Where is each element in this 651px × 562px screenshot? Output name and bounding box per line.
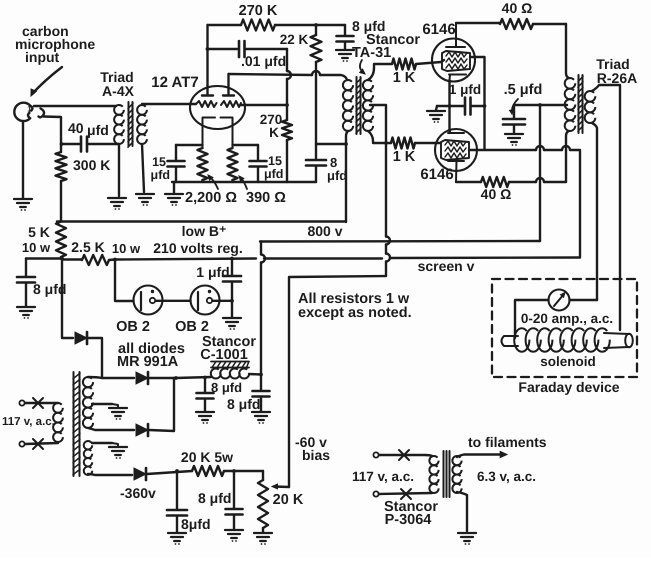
- capacitor 15 ufd left: [175, 145, 177, 160]
- svg-text:20 K 5w: 20 K 5w: [181, 449, 233, 465]
- svg-text:screen v: screen v: [418, 258, 475, 274]
- capacitor 15 ufd right: [257, 145, 259, 160]
- wire HV center tap: [92, 403, 112, 405]
- wire TA-31 center tap: [370, 105, 386, 143]
- wire to choke: [176, 377, 211, 378]
- wire bias bottom lead: [88, 474, 132, 475]
- transformer T4 HV secondary: [83, 377, 93, 387]
- svg-text:K: K: [269, 125, 279, 140]
- wire 20K5w out: [224, 470, 263, 472]
- V4 anode dot: [151, 290, 154, 293]
- ground A-4X secondary: [136, 194, 154, 202]
- V1 grid 1: [196, 101, 217, 107]
- svg-text:270 K: 270 K: [239, 3, 278, 19]
- V1 grid 2: [221, 101, 241, 107]
- V3 plate: [448, 161, 464, 182]
- wire D3 out: [149, 378, 174, 431]
- svg-text:15: 15: [152, 155, 166, 169]
- diode D3: [136, 424, 148, 436]
- wire 300K to low B+: [60, 181, 62, 221]
- svg-text:to filaments: to filaments: [468, 434, 547, 450]
- V1 cathode 1: [203, 118, 216, 149]
- svg-text:μfd: μfd: [327, 168, 347, 183]
- wire 800v riser: [539, 105, 541, 241]
- ground .5 ufd: [505, 134, 523, 142]
- fuse fil top: [399, 450, 409, 460]
- resistor 2.5K: [62, 258, 82, 260]
- V1 plate 2: [223, 74, 234, 96]
- svg-text:.01 μfd: .01 μfd: [241, 53, 286, 69]
- V3 screen lead: [469, 149, 477, 151]
- svg-text:μfd: μfd: [151, 168, 170, 182]
- svg-text:2.5 K: 2.5 K: [71, 239, 104, 255]
- wire 800v line: [260, 240, 540, 243]
- resistor 390 ohm: [228, 148, 238, 180]
- wire lowB feed diode: [62, 259, 73, 339]
- ground A-4X primary: [108, 198, 126, 206]
- tube V4 OB2 envelope: [134, 286, 163, 315]
- arrow 390: [240, 177, 247, 189]
- terminal fil top: [373, 452, 378, 457]
- wire TA-31 primary bottom to low B+: [346, 131, 348, 222]
- svg-text:6146: 6146: [422, 21, 455, 38]
- ground mic: [22, 121, 24, 198]
- V3 grid rows: [445, 141, 466, 146]
- V1 plate 1: [202, 86, 213, 96]
- ground bias1: [168, 533, 186, 541]
- svg-text:low B⁺: low B⁺: [182, 223, 227, 239]
- resistor 300K: [56, 152, 67, 181]
- ground 6146 cathode: [437, 105, 450, 107]
- svg-text:5 K: 5 K: [28, 224, 50, 240]
- tube V5 OB2 envelope: [191, 286, 220, 315]
- capacitor 8 ufd decoupling: [344, 25, 346, 35]
- choke L2 Stancor C-1001: [211, 362, 249, 368]
- wire D2 out: [149, 377, 176, 379]
- wire fil sec bottom: [457, 492, 467, 531]
- wire fil bottom: [379, 493, 432, 494]
- svg-text:10 w: 10 w: [22, 240, 51, 255]
- svg-text:input: input: [25, 49, 60, 65]
- ground 8 ufd reg: [17, 307, 35, 315]
- V2 grid rows: [446, 52, 467, 57]
- wire bias top lead: [92, 442, 112, 444]
- resistor 1K lower: [391, 138, 415, 149]
- wire 117v top: [25, 402, 58, 404]
- wire mic return: [44, 117, 62, 153]
- arrow to microphone: [32, 67, 62, 94]
- meter M 0-20 amp: [549, 290, 570, 311]
- pot arm: [274, 485, 289, 488]
- wire screens to screen-v: [477, 150, 580, 257]
- wire cathode link: [448, 80, 450, 106]
- terminal 117v top: [19, 400, 24, 405]
- wire 1K to grid V3: [415, 142, 440, 144]
- svg-text:300 K: 300 K: [73, 157, 110, 173]
- svg-text:15: 15: [268, 154, 282, 168]
- wire grid2: [241, 104, 287, 106]
- svg-text:8 μfd: 8 μfd: [227, 396, 260, 412]
- wire 1K to grid V2: [416, 62, 441, 64]
- wire low B+ line: [57, 220, 346, 222]
- wire D4 out: [147, 471, 192, 474]
- wire A-4X secondary to grid: [142, 103, 196, 105]
- tube V1 12AT7 envelope: [190, 86, 245, 129]
- capacitor 8 ufd filter2: [260, 375, 262, 391]
- svg-text:6.3 v, a.c.: 6.3 v, a.c.: [477, 469, 536, 484]
- svg-text:390 Ω: 390 Ω: [246, 190, 286, 206]
- wire 390 to 15ufd-right: [233, 144, 259, 146]
- wire 210v line left: [26, 257, 62, 259]
- fuse fil bottom: [401, 489, 411, 499]
- ground OB2: [223, 318, 241, 326]
- V3 cathode bar: [448, 129, 464, 133]
- V2 beam box: [442, 51, 470, 71]
- resistor 270K feedback: [208, 24, 242, 26]
- svg-text:P-3064: P-3064: [385, 512, 432, 528]
- tube V2 6146 upper envelope: [432, 39, 475, 82]
- capacitor 8 ufd bias1: [176, 471, 178, 509]
- tube V3 6146 lower envelope: [435, 129, 477, 171]
- transformer T2 secondary: [363, 80, 373, 90]
- diode D4: [134, 468, 146, 480]
- wire 15ufd-left to cathode: [176, 144, 203, 146]
- wire HV rect top: [102, 377, 134, 379]
- resistor 22K: [315, 25, 317, 35]
- ground cathode bus: [173, 182, 175, 193]
- arrow .5ufd: [512, 99, 518, 113]
- ground fil: [458, 533, 476, 541]
- transformer T5 core: [444, 451, 450, 497]
- transformer T2 core: [357, 77, 361, 134]
- wire 117v bottom: [25, 443, 58, 444]
- wire D1 to HV top: [88, 338, 102, 378]
- wire HV top lead: [88, 377, 102, 378]
- svg-text:1 K: 1 K: [393, 70, 416, 86]
- wire meter right: [570, 299, 598, 301]
- wire grid entry V2: [441, 60, 444, 62]
- svg-text:MR 991A: MR 991A: [117, 354, 179, 370]
- fuse 117v bottom: [33, 439, 43, 449]
- wire meter left: [515, 300, 549, 338]
- wire R-26A sec top: [592, 85, 620, 330]
- svg-text:1 μfd: 1 μfd: [196, 264, 229, 280]
- ground filter1: [196, 412, 214, 420]
- wire A-4X primary bottom to ground: [87, 143, 119, 145]
- capacitor .01 ufd: [208, 48, 238, 50]
- V4 cathode bar: [140, 292, 142, 310]
- wire A-4X secondary bottom to ground: [142, 144, 144, 192]
- svg-text:TA-31: TA-31: [352, 45, 391, 61]
- wire coupling vertical: [286, 49, 288, 120]
- transformer T5 secondary: [452, 456, 461, 465]
- wire HV bottom lead: [88, 428, 134, 430]
- svg-text:2,200 Ω: 2,200 Ω: [185, 190, 237, 206]
- svg-text:0-20 amp., a.c.: 0-20 amp., a.c.: [521, 311, 613, 326]
- wire bias feed vertical: [289, 143, 386, 487]
- transformer T4 core: [74, 372, 80, 476]
- svg-text:bias: bias: [302, 447, 330, 463]
- svg-text:40 Ω: 40 Ω: [502, 0, 533, 16]
- svg-text:117 v, a.c.: 117 v, a.c.: [2, 416, 55, 428]
- capacitor .5 ufd: [513, 105, 515, 118]
- wire to R-26A primary top: [566, 24, 569, 78]
- wire 270K to 8ufd: [316, 24, 345, 26]
- wire OB2 to ground stem: [213, 300, 233, 302]
- wire 390 bottom: [231, 180, 233, 182]
- transformer T1 Triad A-4X primary: [114, 105, 124, 115]
- resistor 40 ohm lower: [456, 181, 481, 183]
- arrow TA-31: [360, 60, 364, 73]
- svg-text:A-4X: A-4X: [102, 83, 135, 99]
- fuse 117v top: [33, 398, 43, 408]
- svg-text:except as noted.: except as noted.: [298, 305, 412, 321]
- V5 cathode bar: [197, 292, 199, 310]
- svg-text:210 volts reg.: 210 volts reg.: [153, 240, 243, 256]
- capacitor 8 ufd bias2: [233, 471, 235, 508]
- transformer T1 secondary: [137, 105, 147, 115]
- capacitor 8 ufd lowB bypass: [315, 144, 317, 159]
- svg-text:6146: 6146: [420, 166, 453, 183]
- wire TA-31 sec top: [368, 64, 392, 80]
- wire to R-26A primary bottom: [566, 131, 569, 182]
- solenoid L1: [502, 336, 519, 346]
- svg-text:OB 2: OB 2: [116, 319, 150, 335]
- transformer T4 power primary: [53, 403, 63, 413]
- svg-text:8μfd: 8μfd: [181, 516, 211, 532]
- ground bias winding: [109, 447, 127, 455]
- V2 screen lead: [470, 57, 485, 149]
- svg-text:1: 1: [27, 105, 32, 114]
- diode D1: [75, 332, 87, 344]
- wire 2200 bottom: [201, 180, 203, 182]
- resistor 270K grid: [282, 120, 292, 140]
- ground bias2: [225, 530, 243, 538]
- terminal fil bottom: [373, 491, 378, 496]
- svg-text:.5 μfd: .5 μfd: [504, 82, 543, 98]
- wire R-26A sec bottom: [592, 123, 597, 300]
- potentiometer 20K: [262, 471, 264, 480]
- transformer T5 P-3064 primary: [429, 456, 438, 465]
- ground HV center: [109, 408, 127, 416]
- wire mic to transformer: [34, 105, 116, 107]
- svg-text:10 w: 10 w: [112, 241, 141, 256]
- resistor 40 ohm upper: [456, 22, 500, 24]
- transformer T2 TA-31 primary: [343, 80, 353, 90]
- svg-text:40: 40: [68, 120, 84, 136]
- wire cathode link lower: [448, 106, 450, 133]
- terminal 117v bottom: [19, 441, 24, 446]
- svg-text:22 K: 22 K: [280, 32, 309, 47]
- svg-text:-360v: -360v: [120, 485, 156, 501]
- svg-text:OB 2: OB 2: [175, 319, 209, 335]
- wire OB2 link: [156, 300, 191, 302]
- svg-text:8 μfd: 8 μfd: [211, 380, 242, 395]
- V2 cathode bar: [449, 75, 466, 81]
- svg-text:μfd: μfd: [264, 167, 283, 181]
- svg-text:μfd: μfd: [87, 122, 109, 138]
- transformer T4 bias secondary: [84, 441, 93, 450]
- capacitor 8 ufd filter1: [204, 378, 206, 393]
- ground 8ufd decoupling: [336, 50, 354, 58]
- wire OB2 feed: [115, 260, 134, 302]
- svg-text:1 μfd: 1 μfd: [449, 82, 481, 97]
- svg-text:1 K: 1 K: [393, 149, 416, 165]
- arrow 2200: [209, 176, 218, 189]
- transformer T3 core: [579, 75, 583, 133]
- svg-text:solenoid: solenoid: [540, 354, 596, 369]
- svg-text:8 μfd: 8 μfd: [198, 490, 231, 506]
- resistor 2200 ohm: [198, 148, 208, 180]
- carbon microphone M1: [14, 103, 32, 121]
- V2 plate: [446, 23, 465, 47]
- capacitor 8 ufd reg: [25, 259, 27, 277]
- ground 20K pot: [254, 533, 272, 541]
- svg-text:20 K: 20 K: [273, 492, 304, 508]
- wire screen-v line: [115, 258, 580, 260]
- transformer T3 secondary: [585, 91, 596, 102]
- resistor 1K upper: [392, 59, 416, 70]
- svg-text:12 AT7: 12 AT7: [151, 74, 199, 91]
- svg-text:Faraday device: Faraday device: [518, 379, 619, 395]
- V3 beam box: [441, 140, 469, 160]
- wire to filaments: [457, 455, 504, 458]
- svg-text:40 Ω: 40 Ω: [481, 186, 512, 202]
- transformer T3 R-26A primary: [565, 78, 576, 89]
- wire 22K junction: [316, 143, 346, 145]
- svg-text:800 v: 800 v: [307, 223, 342, 239]
- wire 270K grid to bus: [286, 140, 288, 182]
- wire B+ to primary center: [514, 104, 567, 106]
- resistor 20K 5w: [192, 466, 224, 476]
- wire 800v feed: [260, 242, 262, 375]
- wire TA-31 sec bottom: [368, 131, 391, 143]
- svg-text:R-26A: R-26A: [597, 70, 637, 86]
- faraday dashed box: [492, 279, 637, 377]
- resistor 5K: [56, 222, 66, 258]
- V1 cathode 2: [221, 118, 233, 149]
- transformer T1 core: [129, 102, 133, 146]
- ground filter2: [252, 412, 270, 420]
- wire fil top: [379, 455, 432, 456]
- svg-text:117 v, a.c.: 117 v, a.c.: [352, 469, 414, 484]
- diode D2: [136, 372, 148, 384]
- wire cathode bus: [172, 181, 316, 183]
- svg-text:C-1001: C-1001: [200, 347, 248, 363]
- V5 anode dot: [208, 290, 211, 293]
- wire plate2 to TA-31: [229, 74, 348, 80]
